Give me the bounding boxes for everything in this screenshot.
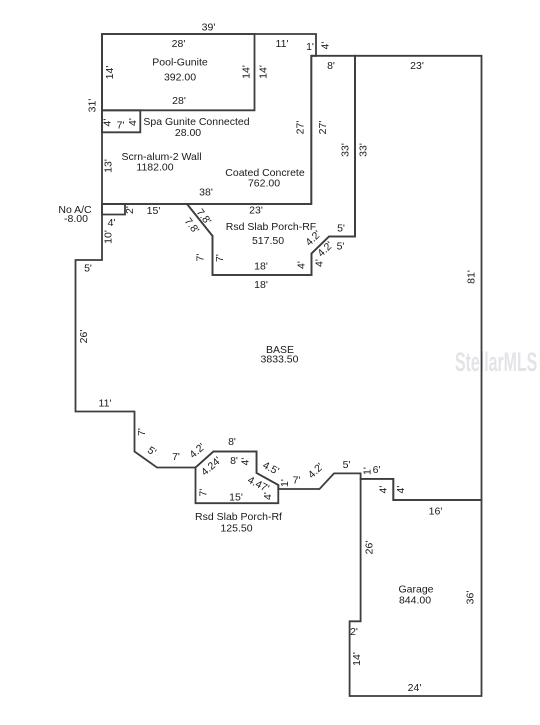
svg-text:33': 33' <box>340 143 352 157</box>
svg-text:24': 24' <box>408 682 422 694</box>
svg-text:392.00: 392.00 <box>164 72 196 84</box>
svg-text:Rsd Slab Porch-Rf: Rsd Slab Porch-Rf <box>195 511 282 523</box>
svg-text:4': 4' <box>395 486 407 494</box>
svg-text:27': 27' <box>295 121 307 135</box>
svg-text:2': 2' <box>350 626 358 638</box>
svg-text:4': 4' <box>127 118 139 126</box>
svg-text:31': 31' <box>87 99 99 113</box>
svg-text:4': 4' <box>262 492 274 500</box>
svg-text:7': 7' <box>136 428 148 436</box>
svg-text:27': 27' <box>317 121 329 135</box>
svg-text:81': 81' <box>466 270 478 284</box>
svg-text:6': 6' <box>373 464 381 476</box>
svg-text:1': 1' <box>279 479 291 487</box>
svg-text:16': 16' <box>429 506 443 518</box>
svg-text:18': 18' <box>254 261 268 273</box>
svg-text:4': 4' <box>102 119 114 127</box>
svg-text:11': 11' <box>276 38 289 50</box>
svg-text:4': 4' <box>314 259 326 267</box>
svg-text:5': 5' <box>84 263 92 275</box>
svg-text:14': 14' <box>241 65 253 79</box>
svg-text:15': 15' <box>147 205 161 217</box>
svg-text:5': 5' <box>337 223 345 235</box>
svg-text:33': 33' <box>358 143 370 157</box>
svg-text:1182.00: 1182.00 <box>136 162 173 174</box>
svg-text:4': 4' <box>240 458 252 466</box>
svg-text:28.00: 28.00 <box>175 127 201 139</box>
svg-text:13': 13' <box>103 159 115 173</box>
svg-text:7': 7' <box>293 475 301 487</box>
svg-text:762.00: 762.00 <box>248 178 280 190</box>
svg-text:28': 28' <box>172 95 186 107</box>
svg-text:StellarMLS: StellarMLS <box>455 347 537 377</box>
svg-text:18': 18' <box>254 279 268 291</box>
svg-text:10': 10' <box>103 230 115 244</box>
svg-text:11': 11' <box>99 398 112 410</box>
svg-text:4': 4' <box>296 261 308 269</box>
svg-text:26': 26' <box>364 541 376 555</box>
svg-text:Rsd Slab Porch-RF: Rsd Slab Porch-RF <box>226 221 316 233</box>
svg-text:4': 4' <box>320 42 332 50</box>
svg-text:7': 7' <box>117 120 125 132</box>
svg-text:15': 15' <box>229 492 243 504</box>
svg-text:23': 23' <box>249 205 263 217</box>
svg-text:14': 14' <box>104 66 116 80</box>
svg-text:517.50: 517.50 <box>252 235 284 247</box>
svg-text:7': 7' <box>214 254 226 262</box>
svg-text:14': 14' <box>258 65 270 79</box>
svg-text:8': 8' <box>230 455 238 467</box>
svg-text:4': 4' <box>108 217 116 229</box>
svg-text:1': 1' <box>306 41 314 53</box>
svg-text:26': 26' <box>78 330 90 344</box>
svg-text:39': 39' <box>202 22 216 34</box>
svg-text:28': 28' <box>172 38 186 50</box>
svg-text:38': 38' <box>199 187 213 199</box>
svg-text:3833.50: 3833.50 <box>261 354 299 366</box>
svg-text:5': 5' <box>337 241 345 253</box>
svg-text:4': 4' <box>378 486 390 494</box>
svg-text:8': 8' <box>327 60 335 72</box>
svg-text:5': 5' <box>343 459 351 471</box>
svg-text:23': 23' <box>410 60 424 72</box>
svg-text:14': 14' <box>351 652 363 666</box>
svg-text:7': 7' <box>195 254 207 262</box>
svg-text:2': 2' <box>124 206 136 214</box>
svg-text:844.00: 844.00 <box>399 595 431 607</box>
svg-text:Pool-Gunite: Pool-Gunite <box>152 57 208 69</box>
svg-text:36': 36' <box>465 591 477 605</box>
svg-text:125.50: 125.50 <box>220 523 252 535</box>
svg-text:-8.00: -8.00 <box>64 213 88 225</box>
svg-text:7': 7' <box>172 451 180 463</box>
svg-text:8': 8' <box>228 436 236 448</box>
svg-text:7': 7' <box>198 489 210 497</box>
